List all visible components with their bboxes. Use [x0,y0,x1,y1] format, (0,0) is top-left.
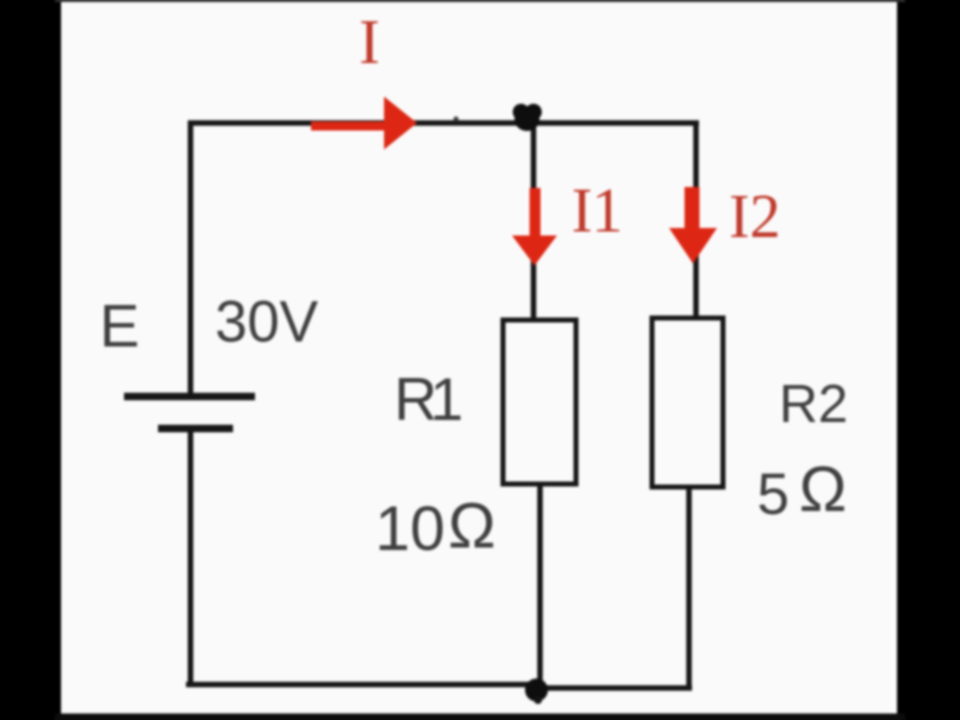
svg-text:I2: I2 [729,183,781,251]
svg-text:Ω: Ω [448,490,496,562]
svg-text:Ω: Ω [799,453,847,525]
svg-text:30V: 30V [215,290,319,355]
svg-text:1: 1 [430,366,463,433]
svg-text:I1: I1 [572,176,622,246]
svg-text:I: I [359,7,380,77]
svg-text:10: 10 [375,494,445,564]
svg-text:E: E [100,293,140,360]
svg-text:R2: R2 [779,374,848,434]
svg-text:5: 5 [757,462,789,527]
